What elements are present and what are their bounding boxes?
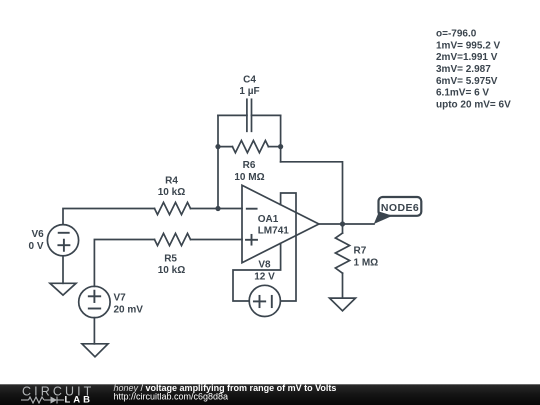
svg-text:LM741: LM741 [258,226,290,237]
wire V7 bottom to ground [93,318,95,344]
svg-text:12 V: 12 V [254,272,275,283]
resistor R5 [155,233,191,245]
op-amp plus sign [246,235,257,245]
svg-text:10 MΩ: 10 MΩ [234,172,264,183]
svg-text:0 V: 0 V [28,241,43,252]
svg-text:10 kΩ: 10 kΩ [158,187,185,198]
ground (V7) [82,344,108,357]
svg-text:C4: C4 [243,75,256,86]
svg-text:LAB: LAB [65,395,94,405]
svg-text:upto 20 mV= 6V: upto 20 mV= 6V [436,100,511,111]
wire R4 to op-amp inverting input [191,208,243,210]
resistor R7 [335,224,349,298]
capacitor C4 [247,99,252,131]
V7 plus sign [89,291,100,302]
junction at R6/C4 left node [215,144,220,149]
node NODE6 pointer [374,212,393,225]
V6 plus sign [58,240,69,251]
svg-text:R4: R4 [165,176,178,187]
voltage source V6 [47,225,78,256]
wire feedback right vertical [280,115,282,161]
wire V7 top to R5 [94,240,154,287]
wire V6 top to R4 [63,209,155,225]
svg-text:3mV= 2.987: 3mV= 2.987 [436,64,491,75]
resistor R6 [232,141,268,153]
ground (V6) [50,283,76,295]
svg-text:http://circuitlab.com/c6g8d8a: http://circuitlab.com/c6g8d8a [114,392,229,402]
svg-text:V8: V8 [258,260,271,271]
svg-text:NODE6: NODE6 [381,202,419,214]
wire R5 to op-amp non-inverting input [191,239,243,241]
V8 minus bar [271,296,273,307]
svg-text:6mV= 5.975V: 6mV= 5.975V [436,76,498,87]
wire C4 left lead [218,114,247,116]
resistor R4 [155,202,191,214]
svg-text:20 mV: 20 mV [114,305,144,316]
voltage source V7 [79,286,110,317]
op-amp OA1 [242,185,319,262]
svg-text:R7: R7 [354,246,367,257]
junction at output node [340,221,345,226]
svg-text:1 MΩ: 1 MΩ [354,258,379,269]
V8 plus sign [254,296,265,307]
wire op-amp V+ pin to V8 right terminal [280,193,296,301]
svg-text:R5: R5 [164,254,177,265]
wire op-amp V- pin to V8 left terminal [233,243,281,301]
ground (R7) [330,298,356,311]
node NODE6 flag box [379,197,422,216]
junction at R6/C4 right node [278,144,283,149]
CircuitLab logo squiggle (resistor + diode) [21,397,64,404]
svg-text:1mV= 995.2 V: 1mV= 995.2 V [436,40,501,51]
svg-text:V7: V7 [114,293,127,304]
op-amp minus sign [247,208,257,210]
wire feedback left vertical [217,115,219,208]
svg-text:6.1mV= 6 V: 6.1mV= 6 V [436,88,489,99]
annotation text block [436,29,511,111]
V6 minus sign [59,232,69,234]
svg-text:o=-796.0: o=-796.0 [436,29,477,40]
wire R6 left lead [218,146,232,148]
V7 minus sign [89,308,100,310]
wire feedback down to output node [281,162,343,224]
junction at inverting input node [215,206,220,211]
svg-text:10 kΩ: 10 kΩ [158,265,185,276]
svg-text:V6: V6 [31,229,44,240]
wire V6 bottom to ground [62,256,64,283]
wire op-amp output [319,223,374,225]
svg-text:2mV=1.991 V: 2mV=1.991 V [436,52,498,63]
svg-text:OA1: OA1 [258,214,279,225]
voltage source V8 [249,285,280,316]
wire C4 right lead [252,114,281,116]
svg-text:R6: R6 [243,160,256,171]
wire R6 right lead [268,146,280,148]
svg-text:1 µF: 1 µF [239,86,259,97]
